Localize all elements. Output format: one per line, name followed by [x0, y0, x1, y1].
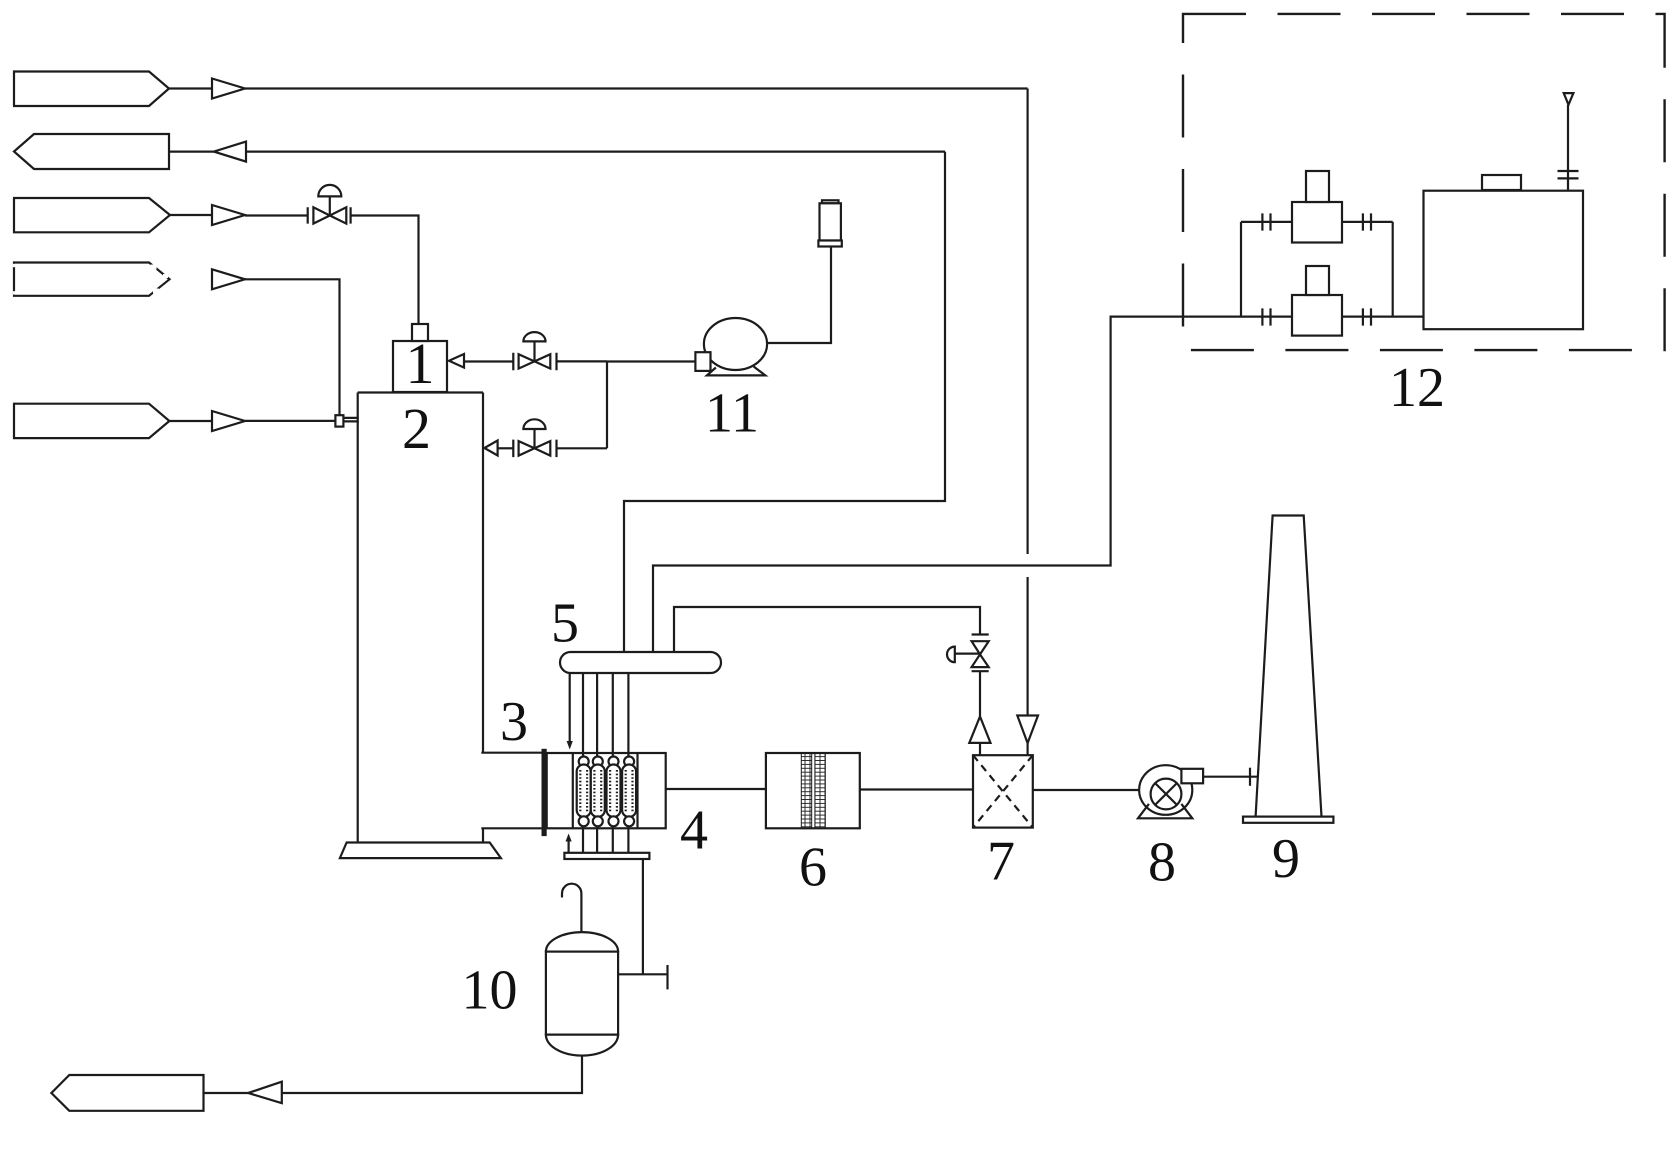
wire unit6 to unit7	[860, 788, 973, 790]
coil tube 1	[577, 673, 591, 853]
sensor S1 upper (gas analyzer)	[1292, 171, 1342, 243]
antenna tip triangle	[1564, 93, 1574, 105]
arrow into unit 2 right	[484, 441, 497, 456]
valve V1 (control valve on line 3)	[308, 185, 351, 224]
double nozzle lines into vessel 2	[343, 418, 358, 422]
flag input 3	[14, 198, 170, 232]
svg-text:6: 6	[799, 837, 827, 899]
sensor S2 lower (gas analyzer)	[1292, 266, 1342, 336]
wire flag1 long run to node above unit 7	[245, 87, 1028, 89]
wire unit4 to unit6	[666, 788, 766, 790]
fan 11 stand	[707, 367, 765, 376]
arrow A4	[212, 269, 245, 289]
bus wire right vertical	[1392, 222, 1394, 317]
flue duct upper line unit2 to economizer	[481, 752, 546, 754]
arrow A5	[212, 411, 245, 431]
sensor S1 right wire with isolator ticks	[1342, 213, 1393, 230]
stack 9 (chimney)	[1256, 516, 1322, 817]
controller box	[1424, 191, 1584, 330]
wire flag4 down to junction square	[245, 279, 340, 415]
unit 1 top connector	[412, 324, 428, 341]
wire manifold to fan 11	[607, 360, 695, 362]
pot 10 swan-neck vent	[562, 884, 581, 931]
svg-text:5: 5	[551, 593, 579, 655]
svg-text:9: 9	[1272, 828, 1300, 890]
bus wire left vertical	[1240, 222, 1242, 317]
stack 9 base plate	[1243, 817, 1333, 823]
valve V2 (control valve into unit 1)	[513, 332, 556, 370]
unit 2 (furnace vessel walls)	[358, 393, 483, 843]
wire from arrow to flag 2	[169, 151, 214, 153]
wire vent valve down to check valve	[979, 671, 981, 716]
wire pot 10 bottom to flag 6	[282, 1056, 582, 1093]
coil tube 3	[607, 673, 621, 853]
vent valve (manual valve above unit 7)	[947, 635, 989, 672]
wire valve V2 to manifold	[557, 360, 608, 362]
wire arrow into unit 7 top	[1026, 743, 1028, 755]
line A: drum to flag2 riser	[624, 152, 945, 652]
wire check valve into unit 7	[979, 743, 981, 755]
unit 4 (economizer shell)	[547, 753, 666, 828]
wire from flag 1 to arrow	[169, 87, 212, 89]
fan 11 inlet block	[695, 352, 710, 371]
controller top terminal	[1482, 175, 1521, 190]
monitoring station 12 dashed enclosure	[1183, 14, 1665, 350]
flag output 6 (left-pointing banner)	[51, 1075, 203, 1111]
coil tube 2	[591, 673, 605, 853]
wire flag1 drop with crossover break	[1026, 89, 1028, 716]
arrow A3	[212, 205, 245, 225]
check valve (up triangle)	[969, 717, 990, 743]
unit 7 dashed diagonals	[973, 755, 1033, 827]
svg-text:12: 12	[1389, 357, 1445, 419]
antenna feed ticks	[1558, 171, 1579, 178]
flag input 4 (dashed tip)	[14, 263, 170, 296]
filter mesh right column	[815, 753, 825, 828]
feed tube with down arrow from drum	[569, 673, 571, 742]
wire valve V1 to downcomer	[351, 216, 419, 325]
drain pot 10 (vertical vessel)	[546, 932, 618, 1055]
wire unit7 to fan 8	[1033, 789, 1139, 791]
arrow A6 (flow left)	[248, 1082, 282, 1104]
wire fan 11 to air filter canister	[767, 246, 831, 343]
wire valve V3 to manifold	[557, 447, 608, 449]
lower water header plate	[564, 853, 649, 859]
arrow A2 (flow left)	[214, 142, 246, 162]
svg-text:11: 11	[705, 383, 759, 445]
svg-text:4: 4	[680, 800, 708, 862]
arrow A1 (flow right)	[212, 79, 245, 99]
unit 7 (mixing box)	[973, 755, 1033, 827]
partition 3 (thick plate)	[542, 749, 547, 836]
header 5 (steam drum capsule)	[560, 652, 721, 673]
svg-text:1: 1	[406, 331, 435, 396]
wire flag5 to arrow	[169, 420, 212, 422]
wire arrow to valve V3	[498, 447, 514, 449]
return tube with up arrow	[567, 841, 569, 853]
sensor S1 left wire with isolator ticks	[1241, 213, 1292, 230]
manifold riser wire	[606, 361, 608, 448]
flue duct lower line unit2 to economizer	[481, 827, 546, 829]
wire pot 10 side with end tick	[618, 973, 667, 975]
arrow into unit 1 right	[449, 354, 464, 368]
antenna mast	[1567, 105, 1569, 190]
stack flange tick	[1249, 768, 1251, 786]
wire flag2 run to riser x945	[246, 151, 945, 153]
filter mesh left column	[801, 753, 811, 828]
fan 11 (blower ellipse)	[704, 318, 767, 370]
unit 1 (burner box)	[393, 341, 447, 392]
unit 6 (filter box)	[766, 753, 860, 828]
valve V3 (control valve into unit 2)	[513, 419, 556, 457]
wire arrow5 to junction square	[245, 420, 335, 422]
line C: drum to vent valve	[674, 607, 980, 652]
unit 2 skirt base	[340, 843, 501, 859]
svg-text:10: 10	[462, 960, 518, 1022]
air filter canister	[818, 200, 841, 246]
svg-text:8: 8	[1148, 832, 1176, 894]
fan 8 (induced draft fan)	[1138, 765, 1203, 818]
junction square node (burner inlet)	[335, 415, 343, 426]
svg-text:2: 2	[402, 396, 431, 461]
arrow down into unit 7	[1017, 716, 1038, 744]
svg-text:3: 3	[500, 691, 528, 753]
coil tube 4	[622, 673, 636, 853]
sensor S2 wire isolator ticks	[1262, 308, 1270, 325]
flag input 1 (top feed banner)	[14, 72, 169, 107]
flag output 2 (left-pointing banner)	[14, 134, 169, 169]
line B: drum to monitstation 12	[653, 317, 1292, 652]
wire header down to drain pot 10	[642, 859, 644, 974]
wire arrow to flag 6	[204, 1092, 249, 1094]
svg-text:7: 7	[987, 831, 1015, 893]
wire fan 8 to stack 9	[1203, 776, 1257, 778]
wire arrow to valve V2	[464, 360, 513, 362]
flag input 5	[14, 404, 169, 438]
wire flag3 to arrow	[170, 214, 212, 216]
sensor S2 right wire with isolator ticks	[1342, 308, 1424, 325]
wire arrow3 to valve V1	[245, 214, 308, 216]
